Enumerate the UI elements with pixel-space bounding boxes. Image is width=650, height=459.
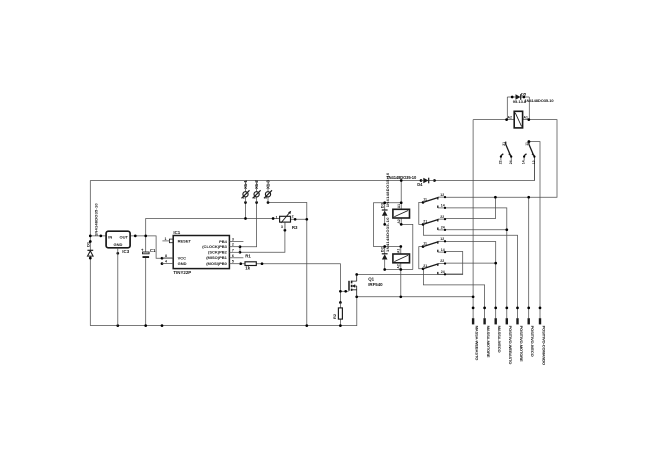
- relay contact K1 21-22-24: [422, 259, 446, 275]
- wire K3 contact 11 common to POSITIVO-COMANDO: [529, 142, 540, 319]
- relay coil K2: [393, 204, 410, 224]
- svg-text:R3: R3: [292, 225, 298, 230]
- svg-text:24: 24: [441, 226, 445, 230]
- trimmer R3: [276, 211, 298, 231]
- connector flag POSITIVO-COMANDO: [539, 318, 547, 365]
- svg-text:R1: R1: [245, 253, 251, 258]
- svg-text:IC3: IC3: [122, 249, 129, 254]
- svg-text:6: 6: [232, 254, 234, 258]
- svg-text:21: 21: [423, 219, 427, 223]
- svg-text:1: 1: [276, 216, 278, 220]
- connector flag MASSA-IVECO: [495, 318, 503, 352]
- svg-text:GND: GND: [113, 242, 122, 247]
- junction dots relay K2 coil and D3: [400, 179, 403, 182]
- svg-text:3: 3: [281, 225, 283, 229]
- svg-text:D5: D5: [521, 91, 527, 96]
- diode D3 1N4148DO35-10: [379, 172, 390, 216]
- svg-text:R2: R2: [332, 313, 337, 319]
- wire GND bottom bus: [90, 297, 357, 326]
- relay contact K1 11-12-14: [422, 237, 446, 253]
- wire K1 coil A2 row and drop to source bus: [385, 263, 413, 297]
- terminal X1-3: [242, 180, 250, 203]
- svg-text:(CLOCK)PB3: (CLOCK)PB3: [202, 244, 227, 249]
- junction dots K3 coil and D5: [505, 118, 508, 121]
- svg-text:12: 12: [532, 160, 536, 164]
- wire K2 coil A1 to +12V rail, down left side to K1 coil A1: [374, 181, 402, 247]
- wire K3 contact 12 riser continues to rail turn: [534, 160, 536, 180]
- wire K1 contact commons chain to MASSA-MOTORE: [419, 247, 485, 319]
- svg-text:11: 11: [525, 142, 529, 146]
- svg-text:2: 2: [254, 195, 256, 199]
- regulator IC3: [106, 231, 130, 325]
- wire POSITIVO-IVECO drop: [528, 197, 530, 318]
- wire IC1 PB3-PB2 tie: [239, 247, 241, 253]
- svg-text:OUT: OUT: [120, 235, 129, 240]
- junction dots IC1 left pins: [161, 257, 164, 260]
- svg-text:D1: D1: [86, 241, 91, 247]
- wire MASSA-IVECO upper link to K2 contact 22: [446, 197, 496, 218]
- junction dot K3 contact 11 common: [528, 140, 531, 143]
- svg-text:14: 14: [441, 204, 445, 208]
- svg-text:(MOSI)PB0: (MOSI)PB0: [206, 261, 227, 266]
- wire X1-2 to IC1 PB3: [240, 203, 257, 247]
- wire K1 contact 12 + 22 to MASSA-IVECO: [446, 242, 496, 319]
- svg-text:X1-1: X1-1: [243, 180, 248, 189]
- svg-text:PB4: PB4: [219, 239, 228, 244]
- svg-text:C1: C1: [150, 248, 156, 253]
- svg-text:11: 11: [423, 197, 427, 201]
- relay coil K1: [393, 249, 410, 269]
- svg-text:RESET: RESET: [178, 238, 192, 243]
- wire D3 stubs across K2 coil: [384, 203, 386, 225]
- relay contact K3 11-14-12: [522, 140, 536, 164]
- svg-text:IC1: IC1: [173, 230, 180, 235]
- svg-text:X1-3: X1-3: [265, 180, 270, 189]
- diode D5 1N4148DO35-10: [516, 91, 555, 103]
- wire IC3 output 5V to IC1 VCC: [130, 236, 173, 258]
- svg-text:22: 22: [499, 160, 503, 164]
- svg-text:1k: 1k: [245, 266, 250, 271]
- junction dots net lines right area: [494, 196, 497, 199]
- connector flag POSITIVO-IVECO: [528, 318, 536, 356]
- svg-text:A1: A1: [524, 115, 528, 119]
- junction dots IC3 GND pin: [116, 252, 119, 255]
- wire K2 contact commons chain to POSITIVO-MOTORE: [419, 202, 518, 318]
- diode D2 1N4148DO35-10: [379, 217, 390, 260]
- svg-text:MASSA-MOTORE: MASSA-MOTORE: [486, 326, 491, 358]
- wire IC1 PB0 through R1 to Q1 gate / R2: [241, 264, 341, 303]
- svg-text:MASSA-WEBASTO: MASSA-WEBASTO: [475, 326, 480, 361]
- wire +12V rail from D4 cathode to K3 contact 12 riser: [435, 157, 535, 181]
- wire Q1 gate: [340, 290, 348, 292]
- svg-text:24: 24: [509, 160, 513, 164]
- svg-text:5: 5: [232, 260, 234, 264]
- connector flag MASSA-MOTORE: [483, 318, 491, 358]
- wire R2 bottom to GND bus: [339, 319, 341, 326]
- wire left vertical supply (D1 branch): [89, 181, 91, 326]
- svg-text:1N4148DO35-10: 1N4148DO35-10: [93, 203, 98, 236]
- junction dots output flags row: [472, 307, 475, 310]
- junction dots left supply column: [89, 235, 92, 238]
- mosfet Q1 IRF540: [349, 275, 383, 297]
- wire R3 pin2 to X1-3 net: [291, 218, 307, 220]
- svg-text:12: 12: [440, 237, 444, 241]
- wire top +12V rail from left edge to D4 anode: [90, 180, 421, 182]
- relay contact K3 21-22-24: [499, 142, 513, 165]
- wire IC3 input: [90, 235, 106, 237]
- svg-text:A1: A1: [397, 204, 401, 208]
- svg-text:D3: D3: [379, 202, 384, 208]
- svg-text:2: 2: [292, 214, 294, 218]
- microcontroller IC1 TINY22P: [162, 230, 243, 275]
- svg-text:14: 14: [441, 248, 445, 252]
- connector flag MASSA-WEBASTO: [472, 318, 480, 360]
- svg-text:21: 21: [423, 264, 427, 268]
- connector flag POSITIVO-WEBASTO: [506, 318, 514, 364]
- junction dots Q1 R2 gate: [339, 290, 342, 293]
- svg-text:8: 8: [165, 254, 167, 258]
- junction dots R3: [272, 217, 275, 220]
- relay coil K3 95.13.8: [508, 99, 528, 128]
- diode D4 1N4148DO35-10: [387, 175, 435, 187]
- wire D2 stubs across K1 coil: [384, 247, 386, 270]
- wire C1 branch: [145, 236, 147, 326]
- svg-text:24: 24: [441, 270, 445, 274]
- wire K3 coil A2 to MASSA-WEBASTO drop: [473, 120, 514, 319]
- svg-text:2: 2: [232, 243, 234, 247]
- wire K2 contact 14 + 24 to POSITIVO-WEBASTO: [446, 208, 507, 318]
- svg-text:22: 22: [440, 259, 444, 263]
- svg-text:A2: A2: [397, 264, 401, 268]
- junction dots relay K1 coil and D2: [399, 245, 402, 248]
- svg-text:11: 11: [423, 242, 427, 246]
- svg-text:Q1: Q1: [368, 276, 374, 281]
- wire Q1 drain to K1 contact 14/24 loop: [357, 252, 463, 275]
- svg-text:(MISO)PB1: (MISO)PB1: [206, 255, 227, 260]
- wire R3 wiper to IC1 PB2: [240, 222, 285, 252]
- wire net K2 contact 12 / K3 A1 / POSITIVO-IVECO: [446, 120, 557, 198]
- svg-text:IN: IN: [108, 235, 112, 240]
- svg-text:TINY22P: TINY22P: [173, 270, 191, 275]
- svg-text:7: 7: [232, 248, 234, 252]
- junction dots X1 terminals: [244, 201, 247, 204]
- wire X1-3 to GND bus: [268, 203, 307, 326]
- svg-text:A2: A2: [508, 115, 512, 119]
- svg-text:1N4148DO35-10: 1N4148DO35-10: [525, 98, 555, 103]
- relay contact K2 11-12-14: [422, 193, 446, 209]
- wire D5 stubs across K3 coil: [507, 97, 529, 120]
- svg-text:D4: D4: [417, 182, 423, 187]
- svg-text:D2: D2: [379, 246, 384, 252]
- capacitor C1: [141, 247, 156, 258]
- svg-text:A2: A2: [397, 219, 401, 223]
- svg-text:12: 12: [440, 193, 444, 197]
- resistor R1 1k: [245, 253, 256, 270]
- svg-text:POSITIVO-COMANDO: POSITIVO-COMANDO: [541, 326, 546, 365]
- svg-text:1N4148DO35-10: 1N4148DO35-10: [387, 175, 417, 180]
- wire K2 coil A2 link down to K1 coil A2 row: [401, 218, 413, 270]
- wire X1-1 drop: [245, 203, 247, 219]
- connector flag POSITIVO-MOTORE: [516, 318, 524, 362]
- svg-text:1N4148DO35-10: 1N4148DO35-10: [385, 217, 390, 252]
- junction dots IC1 right pins: [239, 245, 242, 248]
- diode D1 1N4148DO35-10: [86, 203, 99, 257]
- wire Q1 source bus to MASSA-WEBASTO net: [357, 296, 473, 298]
- wire K1 coil A1 pin: [400, 247, 402, 255]
- junction dots GND bus: [116, 324, 119, 327]
- svg-text:3: 3: [232, 237, 234, 241]
- svg-text:MASSA-IVECO: MASSA-IVECO: [497, 326, 502, 353]
- svg-text:1: 1: [165, 237, 167, 241]
- svg-text:14: 14: [522, 160, 526, 164]
- svg-text:VCC: VCC: [178, 255, 187, 260]
- svg-text:GND: GND: [178, 261, 187, 266]
- wire 5V to R3 pin1 / X1-1: [146, 219, 280, 236]
- svg-text:A1: A1: [397, 249, 401, 253]
- svg-text:(SCK)PB2: (SCK)PB2: [208, 250, 228, 255]
- svg-text:21: 21: [502, 142, 506, 146]
- svg-text:X1-2: X1-2: [254, 180, 259, 189]
- relay contact K2 21-22-24: [422, 215, 446, 231]
- svg-text:1: 1: [243, 195, 245, 199]
- svg-text:IRF540: IRF540: [368, 282, 383, 287]
- svg-text:POSITIVO-WEBASTO: POSITIVO-WEBASTO: [508, 326, 513, 365]
- svg-text:4: 4: [165, 260, 167, 264]
- junction dots D4: [420, 179, 423, 182]
- wire K1 contact 24 bottom link: [446, 273, 463, 275]
- svg-text:3: 3: [265, 195, 267, 199]
- svg-text:22: 22: [440, 215, 444, 219]
- resistor R2: [332, 303, 343, 320]
- svg-text:POSITIVO-MOTORE: POSITIVO-MOTORE: [519, 326, 524, 362]
- svg-text:POSITIVO-IVECO: POSITIVO-IVECO: [530, 326, 535, 357]
